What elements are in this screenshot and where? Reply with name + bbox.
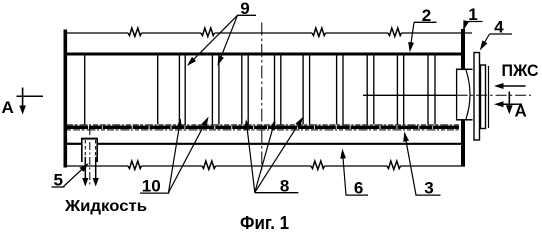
end wall 1 (upper segment) bbox=[461, 29, 465, 69]
nozzle bottom wall bbox=[457, 119, 473, 121]
partition pair 7 bbox=[367, 55, 374, 125]
label 8 underline bbox=[255, 192, 299, 194]
flange plate 4 (outer) bbox=[474, 53, 480, 141]
flange plate (inner) bbox=[481, 65, 486, 129]
svg-text:Фиг. 1: Фиг. 1 bbox=[240, 213, 289, 232]
label 9 leader 2 bbox=[218, 15, 238, 66]
pipe end line bbox=[488, 66, 490, 128]
casing bottom wall (broken line with break symbols) bbox=[65, 161, 465, 170]
horizontal centerline through flange (dash-dot) bbox=[457, 94, 531, 96]
flow line inside nozzle bbox=[363, 94, 457, 96]
label 5 leader 1 bbox=[64, 163, 89, 187]
drain hole hidden line right bbox=[95, 140, 97, 157]
vessel left end wall bbox=[64, 30, 68, 168]
label 4 leader 1 bbox=[480, 34, 490, 51]
partition pair 2 bbox=[212, 55, 219, 125]
drain hole hidden line left bbox=[84, 140, 86, 157]
end wall 1 (lower segment) bbox=[461, 120, 465, 167]
liquid outflow arrow right bbox=[93, 157, 99, 187]
casing top wall (broken line with break symbols) bbox=[65, 28, 472, 37]
drain fitting 5 top edge bbox=[81, 138, 98, 140]
liquid outflow arrow left bbox=[82, 157, 88, 187]
section A marker left: vertical arrow bbox=[19, 88, 26, 115]
nozzle top wall bbox=[457, 68, 473, 70]
partition pair 4 bbox=[275, 55, 281, 125]
partition pair 8 bbox=[397, 55, 403, 125]
nozzle mouth bbox=[456, 68, 458, 120]
label 2 underline bbox=[414, 21, 437, 23]
partition (single) bbox=[157, 55, 159, 125]
partition (single, left) bbox=[84, 55, 86, 125]
label 8 leader 2 bbox=[255, 119, 275, 192]
label 6 underline bbox=[346, 194, 369, 196]
drain fitting centerline (dash-dot) bbox=[89, 127, 91, 186]
label 8 leader 3 bbox=[255, 117, 303, 193]
svg-text:A: A bbox=[2, 98, 14, 117]
section A marker left: horizontal tick bbox=[17, 95, 44, 97]
label 9 leader 1 bbox=[187, 15, 238, 66]
partition pair 6 bbox=[337, 55, 343, 125]
partition pair 5 bbox=[303, 55, 310, 125]
perforated plate 3 (mottled band) bbox=[67, 125, 459, 130]
inflow arrow upper bbox=[494, 83, 526, 89]
inflow arrow lower bbox=[494, 101, 522, 107]
vessel bottom wall 6 bbox=[67, 143, 81, 145]
partition pair 1 bbox=[179, 55, 185, 125]
svg-text:ПЖС: ПЖС bbox=[502, 61, 539, 80]
drain fitting left side bbox=[81, 139, 83, 162]
vertical centerline (dash-dot) bbox=[261, 23, 263, 173]
label 2 leader 1 bbox=[408, 22, 414, 52]
label 8 leader 1 bbox=[244, 119, 255, 192]
label 1 leader 1 bbox=[463, 20, 469, 30]
label 3 leader 1 bbox=[403, 132, 416, 196]
partition pair 3 bbox=[242, 55, 248, 125]
label 6 leader 1 bbox=[340, 149, 346, 196]
label 10 leader 1 bbox=[169, 118, 182, 192]
nozzle break curve bbox=[466, 70, 470, 119]
partition pair 9 bbox=[428, 55, 435, 125]
label 1 underline bbox=[465, 21, 483, 23]
label 9 underline bbox=[237, 14, 256, 16]
vessel top wall 2 bbox=[64, 53, 462, 56]
label 5 underline bbox=[52, 186, 65, 188]
section A marker right: vertical arrow bbox=[506, 92, 513, 115]
svg-text:Жидкость: Жидкость bbox=[64, 198, 147, 215]
label 3 underline bbox=[416, 194, 441, 196]
svg-text:A: A bbox=[515, 102, 527, 121]
drain fitting right side bbox=[96, 139, 98, 162]
label 4 underline bbox=[490, 33, 513, 35]
label 10 leader 2 bbox=[169, 117, 209, 193]
label 10 underline bbox=[140, 192, 169, 194]
